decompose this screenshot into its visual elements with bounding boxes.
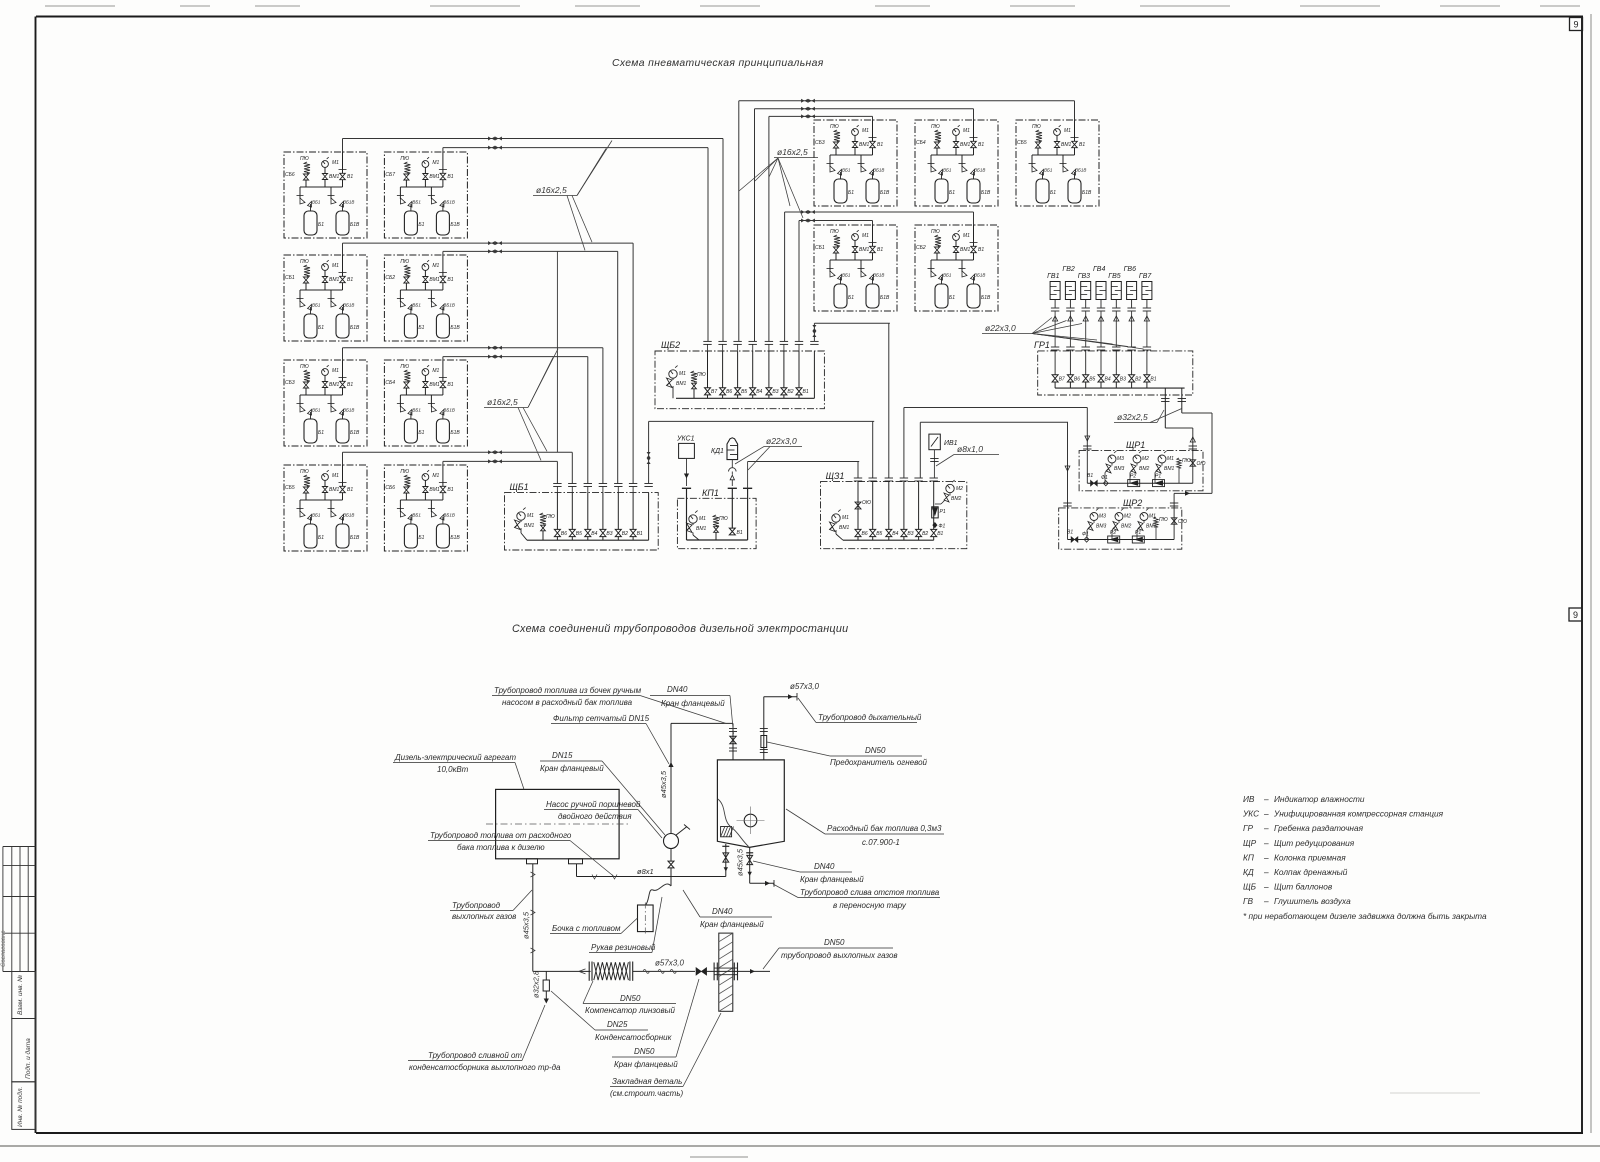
- svg-text:В2: В2: [622, 531, 628, 537]
- svg-text:ВМ2: ВМ2: [1121, 524, 1132, 530]
- svg-text:DN50: DN50: [634, 1047, 655, 1056]
- svg-text:–: –: [1263, 867, 1269, 877]
- svg-text:Рукав резиновый: Рукав резиновый: [591, 943, 656, 952]
- svg-text:В7: В7: [711, 389, 717, 395]
- svg-text:ГВ6: ГВ6: [1124, 266, 1136, 273]
- svg-text:ПЮ: ПЮ: [719, 516, 728, 522]
- svg-text:ОЮ: ОЮ: [1178, 519, 1187, 525]
- svg-text:КД1: КД1: [711, 448, 724, 455]
- svg-text:ВМ1: ВМ1: [1164, 466, 1175, 472]
- svg-text:КД: КД: [1243, 867, 1254, 877]
- svg-text:СБ2: СБ2: [916, 245, 926, 251]
- svg-text:В1: В1: [877, 247, 883, 253]
- svg-text:ПЮ: ПЮ: [400, 469, 409, 475]
- svg-text:ВМ1: ВМ1: [429, 277, 440, 283]
- svg-text:ПЮ: ПЮ: [1032, 124, 1041, 130]
- svg-text:ПЮ: ПЮ: [830, 229, 839, 235]
- svg-text:Б1: Б1: [318, 222, 324, 228]
- svg-text:ПЮ: ПЮ: [300, 364, 309, 370]
- svg-text:КП1: КП1: [702, 488, 719, 498]
- svg-text:–: –: [1263, 794, 1269, 804]
- svg-text:М2: М2: [956, 486, 963, 492]
- svg-text:ВМ1: ВМ1: [839, 525, 850, 531]
- svg-text:В1: В1: [1067, 530, 1073, 536]
- svg-text:Б1: Б1: [418, 535, 424, 541]
- svg-text:СБ2: СБ2: [385, 275, 395, 281]
- svg-text:М1: М1: [842, 515, 849, 521]
- svg-text:В1: В1: [737, 530, 743, 536]
- svg-text:ВБ1: ВБ1: [1044, 168, 1053, 173]
- svg-text:ЩР1: ЩР1: [1126, 440, 1145, 450]
- svg-text:ВМ1: ВМ1: [429, 487, 440, 493]
- svg-text:В7: В7: [1059, 377, 1065, 383]
- svg-text:В3: В3: [1120, 377, 1126, 383]
- svg-text:М1: М1: [332, 473, 339, 479]
- svg-text:М3: М3: [1099, 514, 1106, 520]
- svg-text:ВБ1В: ВБ1В: [343, 303, 354, 308]
- svg-text:Взам. инв. №: Взам. инв. №: [17, 975, 24, 1015]
- svg-text:Расходный бак топлива 0,3м3: Расходный бак топлива 0,3м3: [827, 824, 942, 833]
- svg-text:В1: В1: [347, 277, 353, 283]
- svg-text:ø57x3,0: ø57x3,0: [655, 959, 684, 968]
- svg-text:ГР1: ГР1: [1034, 340, 1050, 350]
- svg-text:конденсатосборника выхлопного: конденсатосборника выхлопного тр-да: [409, 1063, 561, 1072]
- svg-text:Б1В: Б1В: [450, 325, 460, 331]
- svg-text:Дизель-электрический агрегат: Дизель-электрический агрегат: [394, 753, 516, 762]
- svg-text:10,0кВт: 10,0кВт: [437, 765, 469, 774]
- svg-text:Б1: Б1: [418, 325, 424, 331]
- svg-text:Б1В: Б1В: [450, 535, 460, 541]
- svg-text:DN15: DN15: [552, 751, 573, 760]
- svg-text:М1: М1: [432, 263, 439, 269]
- svg-text:В5: В5: [576, 531, 582, 537]
- svg-text:ВМ1: ВМ1: [960, 142, 971, 148]
- svg-text:ВМ1: ВМ1: [329, 277, 340, 283]
- svg-text:В1: В1: [978, 247, 984, 253]
- svg-text:В1: В1: [1079, 142, 1085, 148]
- svg-text:В1: В1: [877, 142, 883, 148]
- svg-text:В5: В5: [741, 389, 747, 395]
- svg-text:В6: В6: [862, 531, 868, 537]
- svg-text:М1: М1: [862, 128, 869, 134]
- svg-text:ПЮ: ПЮ: [300, 259, 309, 265]
- svg-text:ВБ1: ВБ1: [412, 200, 421, 205]
- svg-text:Ф1: Ф1: [939, 524, 946, 530]
- svg-text:ЩЗ1: ЩЗ1: [826, 471, 845, 481]
- svg-text:–: –: [1263, 838, 1269, 848]
- svg-text:ø16x2,5: ø16x2,5: [487, 397, 518, 407]
- svg-text:В1: В1: [447, 487, 453, 493]
- svg-text:Б1: Б1: [318, 430, 324, 436]
- svg-text:Насос ручной поршневой: Насос ручной поршневой: [546, 800, 641, 809]
- svg-text:Трубопровод слива отстоя топли: Трубопровод слива отстоя топлива: [800, 888, 940, 897]
- svg-text:Фильтр сетчатый DN15: Фильтр сетчатый DN15: [553, 714, 650, 723]
- svg-text:ø32x2,8: ø32x2,8: [532, 970, 541, 998]
- svg-text:Щит баллонов: Щит баллонов: [1274, 882, 1333, 892]
- svg-text:ВБ1В: ВБ1В: [343, 200, 354, 205]
- svg-text:Унифицированная компрессорная: Унифицированная компрессорная станция: [1273, 809, 1444, 819]
- svg-text:В4: В4: [1105, 377, 1111, 383]
- svg-text:М1: М1: [332, 368, 339, 374]
- svg-text:Б1В: Б1В: [350, 535, 360, 541]
- svg-text:DN50: DN50: [620, 994, 641, 1003]
- svg-text:ВМ1: ВМ1: [1061, 142, 1072, 148]
- svg-text:В6: В6: [561, 531, 567, 537]
- svg-text:Кран фланцевый: Кран фланцевый: [800, 875, 864, 884]
- svg-text:ГВ4: ГВ4: [1093, 266, 1105, 273]
- svg-text:9: 9: [1573, 610, 1578, 620]
- svg-text:ø8x1,0: ø8x1,0: [957, 444, 983, 454]
- svg-text:Индикатор влажности: Индикатор влажности: [1274, 794, 1365, 804]
- svg-text:ВМ1: ВМ1: [859, 247, 870, 253]
- svg-text:ø16x2,5: ø16x2,5: [777, 147, 808, 157]
- svg-text:(см.строит.часть): (см.строит.часть): [610, 1089, 684, 1098]
- svg-text:Кран фланцевый: Кран фланцевый: [661, 699, 725, 708]
- svg-text:Б1В: Б1В: [350, 430, 360, 436]
- svg-text:Р1: Р1: [940, 509, 946, 515]
- svg-text:ПЮ: ПЮ: [697, 372, 706, 378]
- svg-text:В1: В1: [447, 174, 453, 180]
- svg-text:В4: В4: [591, 531, 597, 537]
- svg-text:ВМ2: ВМ2: [951, 496, 962, 502]
- svg-text:М1: М1: [1064, 128, 1071, 134]
- svg-text:ВБ1В: ВБ1В: [974, 168, 985, 173]
- svg-text:ВБ1В: ВБ1В: [1075, 168, 1086, 173]
- svg-text:В6: В6: [1074, 377, 1080, 383]
- svg-text:ø22x3,0: ø22x3,0: [766, 436, 797, 446]
- svg-text:В1: В1: [347, 487, 353, 493]
- svg-text:Трубопровод: Трубопровод: [452, 901, 501, 910]
- svg-text:Конденсатосборник: Конденсатосборник: [595, 1033, 673, 1042]
- svg-text:Трубопровод дыхательный: Трубопровод дыхательный: [818, 713, 922, 722]
- svg-text:ГВ7: ГВ7: [1139, 273, 1152, 280]
- svg-text:DN50: DN50: [865, 746, 886, 755]
- svg-text:В1: В1: [447, 277, 453, 283]
- svg-text:Согласовано: Согласовано: [1, 930, 7, 967]
- svg-text:Схема соединений трубопроводов: Схема соединений трубопроводов дизельной…: [512, 623, 848, 635]
- svg-text:ГВ1: ГВ1: [1047, 273, 1059, 280]
- svg-text:М1: М1: [679, 371, 686, 377]
- svg-text:Б1В: Б1В: [880, 190, 890, 196]
- svg-text:СБ1: СБ1: [815, 245, 825, 251]
- svg-text:ВМ3: ВМ3: [1096, 524, 1107, 530]
- svg-text:ГВ2: ГВ2: [1062, 266, 1074, 273]
- svg-text:Кран фланцевый: Кран фланцевый: [540, 764, 604, 773]
- svg-text:Б1: Б1: [418, 222, 424, 228]
- svg-text:Ф1: Ф1: [1082, 532, 1089, 538]
- svg-text:Гребенка раздаточная: Гребенка раздаточная: [1274, 823, 1364, 833]
- svg-text:М1: М1: [963, 233, 970, 239]
- svg-text:ø32x2,5: ø32x2,5: [1117, 412, 1148, 422]
- svg-text:Б1: Б1: [848, 190, 854, 196]
- svg-text:DN25: DN25: [607, 1020, 628, 1029]
- svg-text:М1: М1: [432, 160, 439, 166]
- svg-text:ВБ1: ВБ1: [312, 200, 321, 205]
- svg-text:9: 9: [1573, 20, 1578, 30]
- svg-text:Подп. и дата: Подп. и дата: [24, 1038, 32, 1079]
- svg-text:Р2: Р2: [1130, 474, 1136, 480]
- svg-text:ВБ1В: ВБ1В: [443, 513, 454, 518]
- svg-text:ВМ2: ВМ2: [1139, 466, 1150, 472]
- svg-text:Кран фланцевый: Кран фланцевый: [700, 920, 764, 929]
- svg-text:Трубопровод топлива от расходн: Трубопровод топлива от расходного: [430, 831, 572, 840]
- svg-text:Колонка приемная: Колонка приемная: [1274, 852, 1346, 862]
- svg-text:М1: М1: [963, 128, 970, 134]
- svg-text:ВМ1: ВМ1: [696, 526, 707, 532]
- svg-text:ВБ1: ВБ1: [312, 513, 321, 518]
- svg-text:ВБ1В: ВБ1В: [873, 168, 884, 173]
- svg-text:Б1В: Б1В: [350, 222, 360, 228]
- svg-text:В2: В2: [787, 389, 793, 395]
- svg-text:Трубопровод сливной от: Трубопровод сливной от: [428, 1051, 522, 1060]
- svg-text:ВБ1: ВБ1: [312, 303, 321, 308]
- svg-text:В3: В3: [772, 389, 778, 395]
- svg-text:ИВ1: ИВ1: [944, 440, 958, 447]
- svg-text:М2: М2: [1124, 514, 1131, 520]
- svg-text:ВБ1В: ВБ1В: [974, 273, 985, 278]
- svg-text:УКС1: УКС1: [676, 436, 695, 443]
- svg-text:ВБ1В: ВБ1В: [873, 273, 884, 278]
- svg-text:ЩБ1: ЩБ1: [510, 482, 529, 492]
- svg-text:* при неработающем дизеле задв: * при неработающем дизеле задвижка должн…: [1243, 911, 1487, 921]
- svg-text:ВБ1: ВБ1: [412, 513, 421, 518]
- svg-text:М1: М1: [432, 368, 439, 374]
- svg-text:ВБ1В: ВБ1В: [443, 200, 454, 205]
- svg-text:ВБ1: ВБ1: [842, 168, 851, 173]
- svg-text:Колпак дренажный: Колпак дренажный: [1274, 867, 1348, 877]
- svg-text:Инв. № подл.: Инв. № подл.: [16, 1086, 24, 1127]
- svg-text:Б1: Б1: [949, 190, 955, 196]
- svg-text:В1: В1: [347, 382, 353, 388]
- svg-text:СБ6: СБ6: [385, 485, 395, 491]
- svg-text:ø16x2,5: ø16x2,5: [536, 185, 567, 195]
- svg-text:УКС: УКС: [1242, 809, 1260, 819]
- svg-text:ВБ1: ВБ1: [412, 303, 421, 308]
- svg-text:ø45x3,5: ø45x3,5: [659, 770, 668, 798]
- svg-text:М1: М1: [332, 160, 339, 166]
- svg-text:DN50: DN50: [824, 938, 845, 947]
- svg-text:ГР: ГР: [1243, 823, 1254, 833]
- svg-text:Б1В: Б1В: [1082, 190, 1092, 196]
- svg-text:СБ3: СБ3: [815, 140, 825, 146]
- svg-text:М1: М1: [527, 513, 534, 519]
- svg-text:СБ4: СБ4: [385, 380, 395, 386]
- svg-text:ВМ1: ВМ1: [960, 247, 971, 253]
- svg-text:ø45x3,5: ø45x3,5: [736, 848, 745, 876]
- svg-text:ВМ1: ВМ1: [329, 382, 340, 388]
- svg-text:ГВ5: ГВ5: [1108, 273, 1120, 280]
- svg-text:двойного действия: двойного действия: [558, 812, 632, 821]
- svg-text:–: –: [1263, 852, 1269, 862]
- svg-text:ПЮ: ПЮ: [400, 259, 409, 265]
- svg-text:Б1: Б1: [848, 295, 854, 301]
- svg-text:СБ3: СБ3: [285, 380, 295, 386]
- svg-text:В1: В1: [347, 174, 353, 180]
- svg-text:ВБ1: ВБ1: [412, 408, 421, 413]
- svg-text:ПЮ: ПЮ: [1182, 458, 1191, 464]
- svg-text:Глушитель воздуха: Глушитель воздуха: [1274, 896, 1351, 906]
- svg-text:с.07.900-1: с.07.900-1: [862, 838, 900, 847]
- svg-text:Трубопровод топлива из бочек р: Трубопровод топлива из бочек ручным: [494, 686, 642, 695]
- svg-text:ПЮ: ПЮ: [546, 514, 555, 520]
- svg-text:В1: В1: [637, 531, 643, 537]
- svg-text:ВБ1: ВБ1: [943, 168, 952, 173]
- svg-text:В1: В1: [803, 389, 809, 395]
- svg-text:ПЮ: ПЮ: [300, 156, 309, 162]
- svg-text:ø8x1: ø8x1: [637, 867, 654, 876]
- svg-text:бака топлива к дизелю: бака топлива к дизелю: [457, 843, 545, 852]
- svg-text:Закладная деталь: Закладная деталь: [612, 1077, 682, 1086]
- svg-text:–: –: [1263, 823, 1269, 833]
- svg-text:Б1: Б1: [318, 535, 324, 541]
- svg-text:ВБ1В: ВБ1В: [343, 408, 354, 413]
- svg-text:–: –: [1263, 809, 1269, 819]
- svg-text:ВБ1: ВБ1: [842, 273, 851, 278]
- svg-text:В2: В2: [922, 531, 928, 537]
- svg-text:Б1В: Б1В: [981, 190, 991, 196]
- svg-text:СБ5: СБ5: [1017, 140, 1027, 146]
- svg-text:Б1: Б1: [418, 430, 424, 436]
- svg-text:ОЮ: ОЮ: [862, 500, 871, 506]
- svg-text:DN40: DN40: [814, 862, 835, 871]
- svg-text:М1: М1: [699, 516, 706, 522]
- svg-text:ВМ1: ВМ1: [676, 381, 687, 387]
- svg-text:в переносную тару: в переносную тару: [833, 901, 907, 910]
- svg-text:ВМ1: ВМ1: [524, 523, 535, 529]
- svg-text:ЩБ: ЩБ: [1243, 882, 1257, 892]
- svg-text:ПЮ: ПЮ: [400, 364, 409, 370]
- svg-text:Ф1: Ф1: [1101, 475, 1108, 481]
- svg-text:В4: В4: [756, 389, 762, 395]
- svg-text:Компенсатор линзовый: Компенсатор линзовый: [585, 1006, 676, 1015]
- svg-text:СБ6: СБ6: [285, 172, 295, 178]
- svg-text:–: –: [1263, 882, 1269, 892]
- svg-text:В2: В2: [1135, 377, 1141, 383]
- svg-text:Щит редуцирования: Щит редуцирования: [1274, 838, 1355, 848]
- svg-text:ГВ3: ГВ3: [1078, 273, 1090, 280]
- svg-text:В3: В3: [606, 531, 612, 537]
- svg-text:ВМ1: ВМ1: [859, 142, 870, 148]
- svg-text:Кран фланцевый: Кран фланцевый: [614, 1060, 678, 1069]
- svg-text:М1: М1: [332, 263, 339, 269]
- svg-text:Б1В: Б1В: [450, 222, 460, 228]
- svg-text:ВБ1: ВБ1: [312, 408, 321, 413]
- svg-text:ЩР: ЩР: [1243, 838, 1257, 848]
- svg-text:М3: М3: [1117, 456, 1124, 462]
- svg-text:насосом в расходный бак топлив: насосом в расходный бак топлива: [502, 698, 633, 707]
- svg-text:В1: В1: [447, 382, 453, 388]
- svg-text:М1: М1: [432, 473, 439, 479]
- svg-text:ø57x3,0: ø57x3,0: [790, 682, 819, 691]
- svg-text:ВМ1: ВМ1: [329, 174, 340, 180]
- svg-text:В1: В1: [1087, 473, 1093, 479]
- svg-text:выхлопных газов: выхлопных газов: [452, 912, 516, 921]
- svg-text:ИВ: ИВ: [1243, 794, 1255, 804]
- svg-text:Б1В: Б1В: [880, 295, 890, 301]
- svg-text:ОЮ: ОЮ: [1197, 461, 1206, 467]
- svg-text:СБ4: СБ4: [916, 140, 926, 146]
- svg-text:СБ7: СБ7: [385, 172, 395, 178]
- svg-text:СБ1: СБ1: [285, 275, 295, 281]
- svg-text:ПЮ: ПЮ: [931, 229, 940, 235]
- svg-text:DN40: DN40: [712, 907, 733, 916]
- svg-text:ø22x3,0: ø22x3,0: [985, 323, 1016, 333]
- svg-text:Бочка с топливом: Бочка с топливом: [552, 924, 621, 933]
- svg-text:DN40: DN40: [667, 685, 688, 694]
- svg-text:ВМ1: ВМ1: [329, 487, 340, 493]
- svg-text:КП: КП: [1243, 852, 1255, 862]
- svg-text:ЩР2: ЩР2: [1123, 498, 1142, 508]
- svg-text:СБ5: СБ5: [285, 485, 295, 491]
- svg-text:В5: В5: [876, 531, 882, 537]
- svg-text:ПЮ: ПЮ: [1159, 517, 1168, 523]
- svg-text:Б1: Б1: [1050, 190, 1056, 196]
- svg-text:В6: В6: [726, 389, 732, 395]
- svg-text:ГВ: ГВ: [1243, 896, 1254, 906]
- svg-text:В1: В1: [937, 531, 943, 537]
- svg-text:ВМ1: ВМ1: [429, 382, 440, 388]
- svg-text:ПЮ: ПЮ: [300, 469, 309, 475]
- svg-text:ВБ1: ВБ1: [943, 273, 952, 278]
- svg-text:трубопровод выхлопных газов: трубопровод выхлопных газов: [781, 951, 898, 960]
- svg-text:Б1: Б1: [949, 295, 955, 301]
- svg-text:Б1В: Б1В: [350, 325, 360, 331]
- svg-text:Б1В: Б1В: [450, 430, 460, 436]
- svg-text:В5: В5: [1089, 377, 1095, 383]
- svg-text:ВБ1В: ВБ1В: [443, 408, 454, 413]
- svg-text:М1: М1: [1167, 456, 1174, 462]
- svg-text:Р1: Р1: [1135, 530, 1141, 536]
- svg-text:В1: В1: [1150, 377, 1156, 383]
- svg-text:М2: М2: [1142, 456, 1149, 462]
- svg-text:М1: М1: [862, 233, 869, 239]
- svg-text:Б1В: Б1В: [981, 295, 991, 301]
- svg-text:ø45x3,5: ø45x3,5: [522, 911, 531, 939]
- svg-text:Схема пневматическая принципиа: Схема пневматическая принципиальная: [612, 58, 824, 69]
- svg-text:–: –: [1263, 896, 1269, 906]
- svg-text:Предохранитель огневой: Предохранитель огневой: [830, 758, 928, 767]
- svg-text:ВБ1В: ВБ1В: [443, 303, 454, 308]
- svg-text:ПЮ: ПЮ: [830, 124, 839, 130]
- svg-text:Б1: Б1: [318, 325, 324, 331]
- svg-text:ВБ1В: ВБ1В: [343, 513, 354, 518]
- svg-text:Р1: Р1: [1155, 474, 1161, 480]
- svg-text:Р2: Р2: [1110, 530, 1116, 536]
- svg-text:ВМ1: ВМ1: [429, 174, 440, 180]
- svg-text:В3: В3: [907, 531, 913, 537]
- svg-text:ЩБ2: ЩБ2: [661, 340, 680, 350]
- svg-text:ВМ3: ВМ3: [1114, 466, 1125, 472]
- svg-text:ПЮ: ПЮ: [931, 124, 940, 130]
- svg-text:ПЮ: ПЮ: [400, 156, 409, 162]
- svg-text:В4: В4: [892, 531, 898, 537]
- svg-text:В1: В1: [978, 142, 984, 148]
